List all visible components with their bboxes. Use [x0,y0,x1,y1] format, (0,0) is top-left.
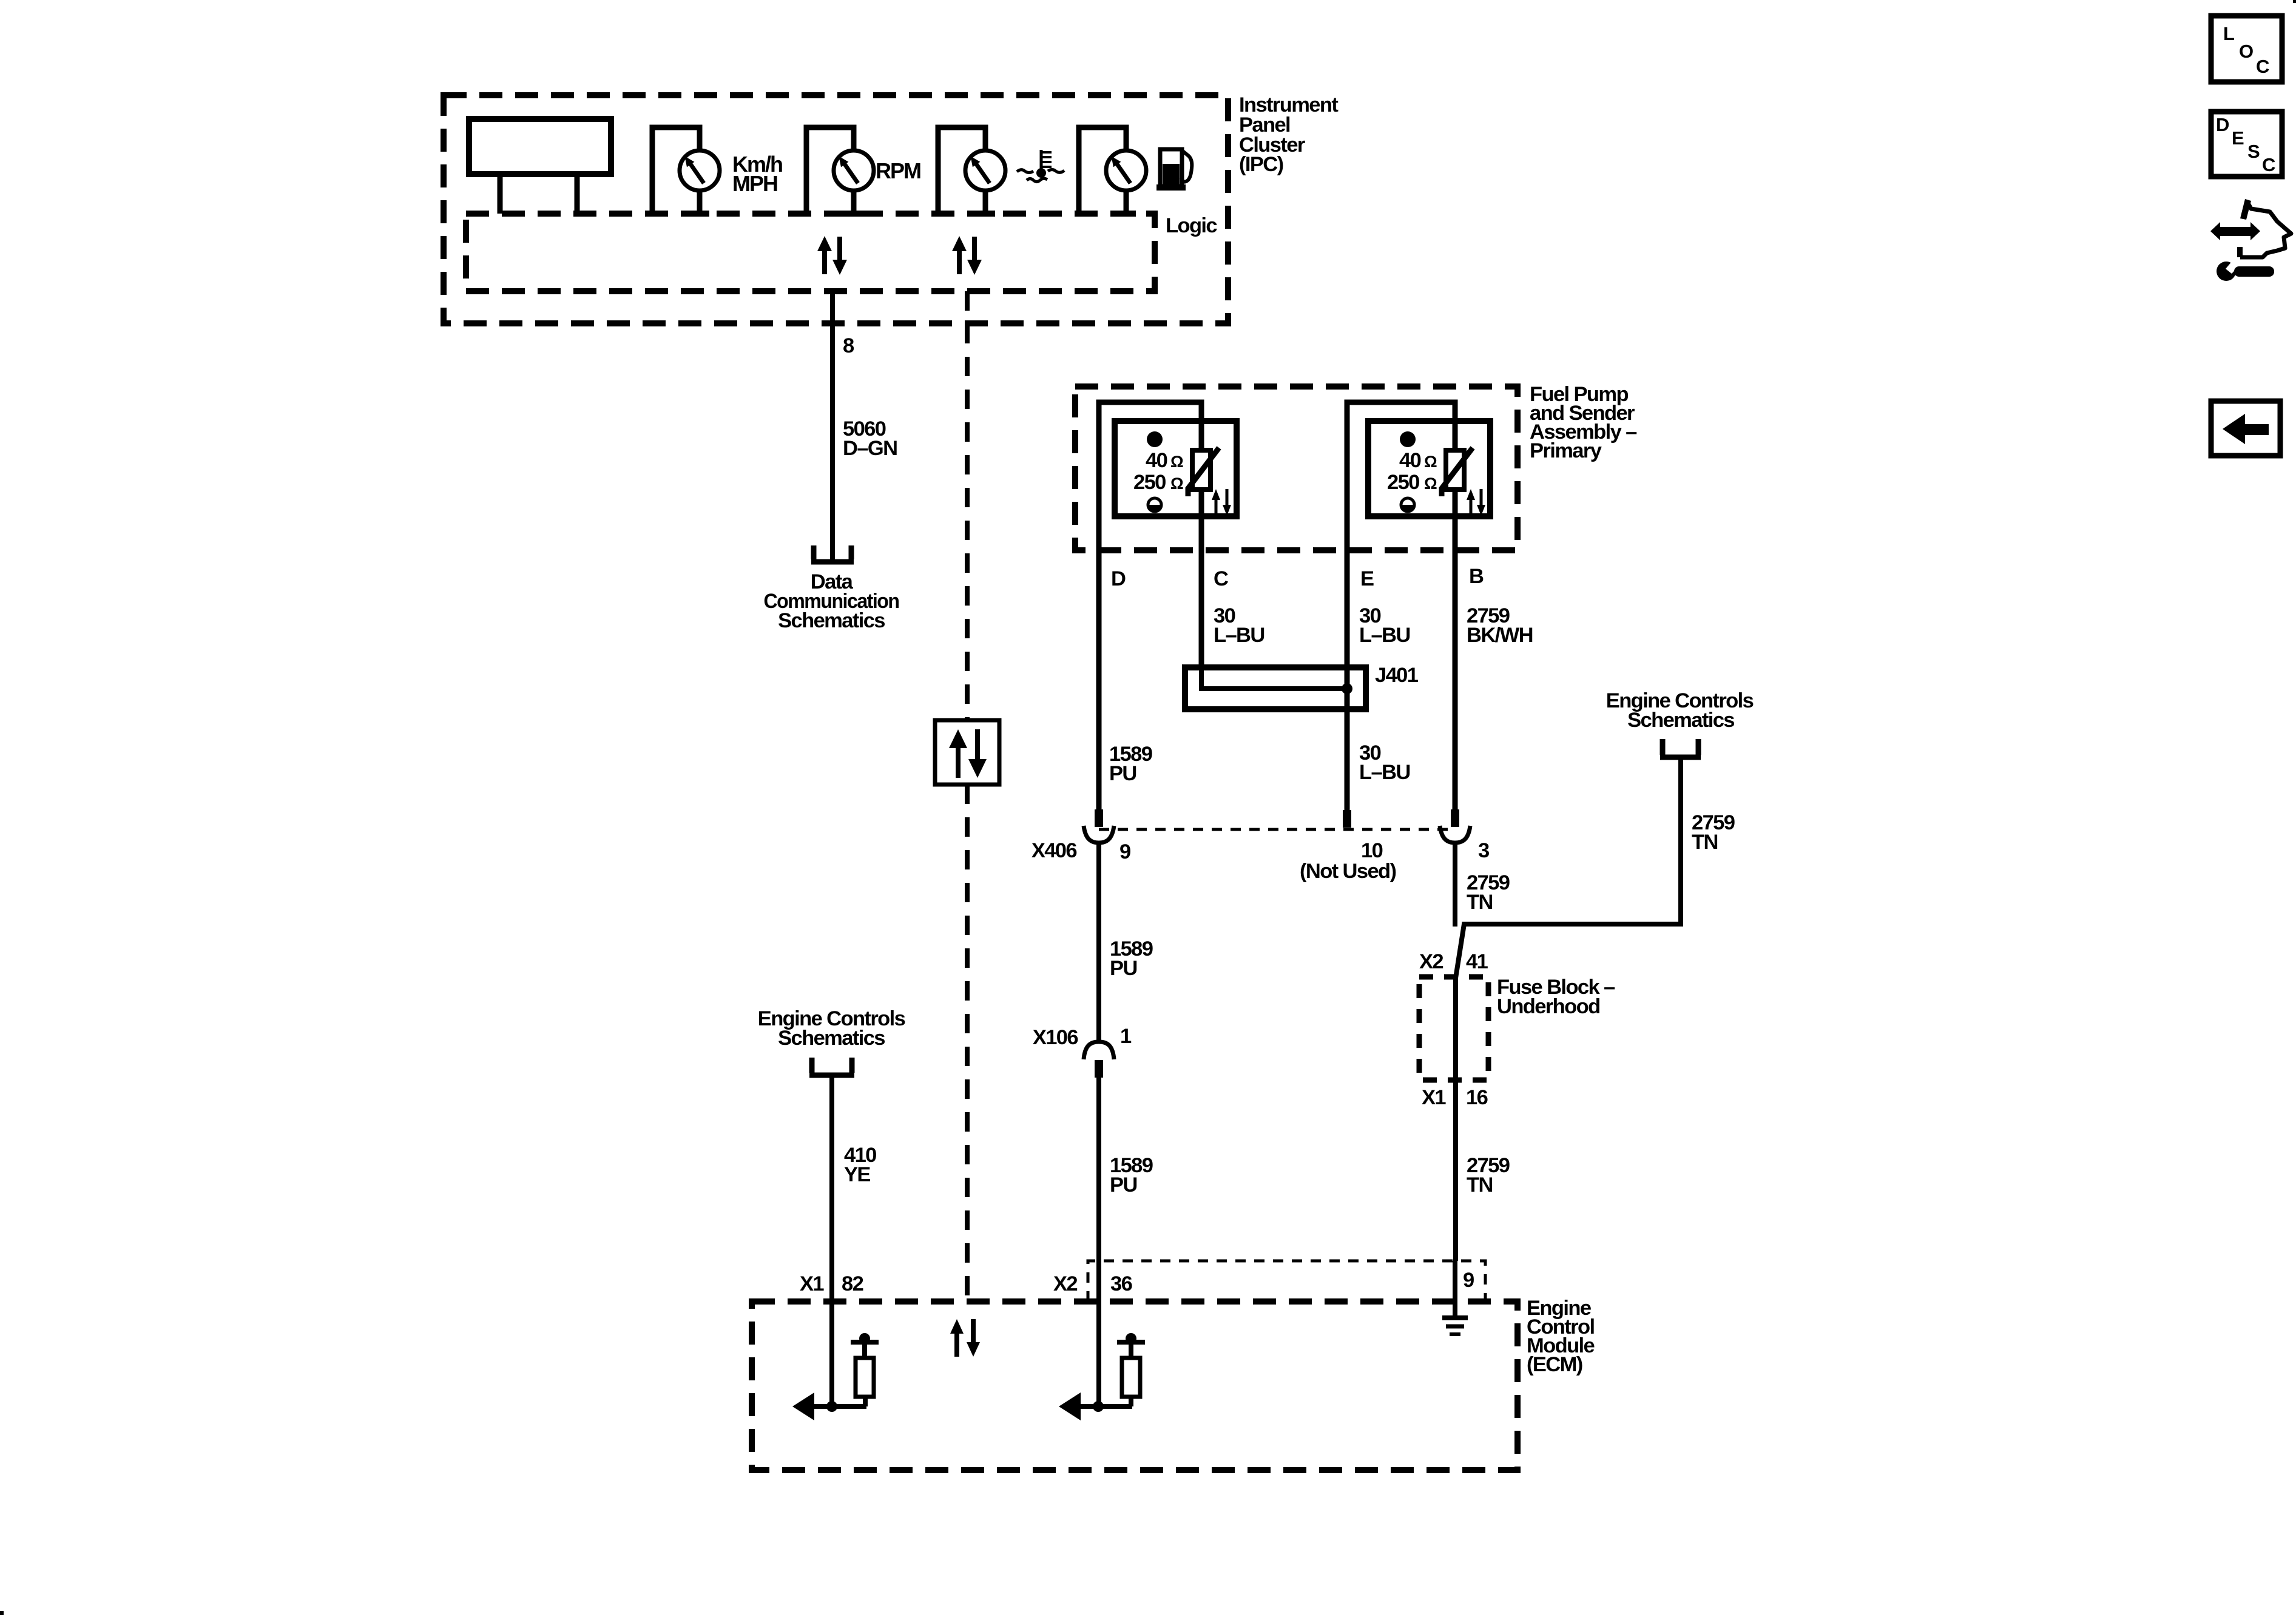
svg-text:Ω: Ω [1424,474,1437,493]
left sender full dot [1147,431,1163,447]
J401 bus [1201,667,1347,689]
right sender housing + wire E + wire B [1347,402,1455,828]
wire X2 41 to fuse block [1453,977,1458,1261]
svg-text:Underhood: Underhood [1497,995,1600,1018]
X406 pin 3 terminal [1440,809,1470,843]
wire 1589 PU below pin 9 [1096,843,1101,1043]
back arrow icon box [2211,401,2280,456]
svg-text:L–BU: L–BU [1359,761,1410,784]
serial data arrow box [935,720,999,785]
ECM driver X2 36 [1059,1333,1145,1420]
coolant temperature icon [1017,150,1064,182]
IPC dashed box [444,95,1228,323]
right sender full dot [1400,431,1416,447]
svg-text:40: 40 [1146,449,1167,472]
svg-text:E: E [2232,127,2244,149]
svg-text:C: C [2262,154,2275,175]
svg-text:250: 250 [1133,471,1166,494]
corner mark top right [2293,0,2296,3]
svg-text:C: C [1214,567,1228,590]
wire display leg right [575,174,580,214]
svg-text:PU: PU [1110,957,1137,980]
wire 2759 TN from schematics [1456,760,1681,978]
svg-text:RPM: RPM [876,158,920,183]
dashed serial data wire lower [965,785,970,1309]
svg-text:Schematics: Schematics [778,1027,885,1050]
svg-text:Logic: Logic [1166,214,1217,237]
Logic dashed box [466,214,1155,291]
svg-text:1: 1 [1120,1025,1132,1048]
svg-text:Ω: Ω [1170,474,1183,493]
X406 pin 9 terminal [1084,809,1114,843]
svg-text:L: L [2223,23,2235,44]
off-page connector left [809,1058,854,1075]
svg-text:L–BU: L–BU [1214,624,1264,647]
dashed serial data wire upper [965,291,970,720]
IPC label [1239,93,1339,176]
off-page connector Data Communication [811,545,854,562]
svg-text:X2: X2 [1419,950,1443,973]
gauge tachometer [806,127,874,217]
gauge coolant temp [938,127,1005,217]
ECM connector dotted line [1088,1261,1485,1301]
svg-text:(ECM): (ECM) [1527,1353,1582,1376]
svg-text:36: 36 [1110,1272,1132,1295]
svg-text:16: 16 [1466,1086,1488,1109]
corner mark bottom left [0,1611,4,1615]
svg-text:X106: X106 [1033,1026,1078,1049]
svg-text:C: C [2256,56,2269,77]
svg-text:PU: PU [1110,1173,1137,1197]
node Engine Controls Schematics left [758,1007,905,1050]
svg-text:TN: TN [1467,891,1493,914]
ECM dashed box [752,1301,1518,1470]
logic up/down arrows pair 1 [817,236,847,275]
svg-text:(IPC): (IPC) [1239,153,1283,176]
X406 pin 10 terminal [1343,810,1351,828]
svg-text:D–GN: D–GN [843,437,897,460]
left sender variable resistor [1188,448,1219,496]
svg-text:X1: X1 [1422,1086,1446,1109]
svg-text:41: 41 [1466,950,1488,973]
svg-text:S: S [2247,141,2260,162]
svg-text:E: E [1360,567,1374,590]
Fuse Block Underhood dashed box [1419,977,1488,1080]
svg-text:TN: TN [1467,1173,1493,1197]
node Data Communication Schematics [764,570,899,632]
svg-text:YE: YE [844,1163,870,1186]
wire 1589 PU to ECM [1096,1078,1101,1406]
label Fuel Pump and Sender Assembly Primary [1530,383,1637,462]
ECM ground pin 9 [1442,1261,1468,1334]
svg-text:PU: PU [1109,762,1136,785]
Fuel Pump and Sender Assembly dashed box [1075,387,1518,550]
svg-text:D: D [2216,114,2229,135]
right sender inner box [1368,421,1490,516]
svg-text:250: 250 [1387,471,1419,494]
svg-text:L–BU: L–BU [1359,624,1410,647]
svg-text:(Not Used): (Not Used) [1300,860,1396,883]
svg-text:X2: X2 [1053,1272,1077,1295]
svg-text:O: O [2239,41,2254,62]
arrows in box [949,729,987,778]
arrows at ECM [950,1319,980,1357]
fuel pump icon [1156,149,1192,191]
connector X106 [1084,1042,1114,1078]
svg-text:J401: J401 [1375,664,1419,687]
svg-text:BK/WH: BK/WH [1467,624,1533,647]
wire E through J401 to X406 [1345,709,1350,828]
LOC icon box [2211,16,2282,82]
svg-text:B: B [1469,565,1484,588]
svg-text:D: D [1111,567,1126,590]
ECM driver X1 82 [792,1333,879,1420]
svg-text:9: 9 [1463,1269,1474,1292]
svg-text:Ω: Ω [1170,453,1183,471]
IPC display module rectangle [469,119,611,174]
gauge fuel [1079,127,1146,217]
svg-text:Schematics: Schematics [1627,709,1734,732]
svg-text:82: 82 [842,1272,863,1295]
right sender empty dot [1400,498,1416,513]
svg-text:40: 40 [1399,449,1421,472]
svg-text:X406: X406 [1032,839,1077,862]
right sender variable resistor [1442,448,1473,496]
splice pack J401 [1185,667,1366,709]
left sender small arrows [1212,489,1231,516]
svg-text:10: 10 [1361,839,1383,862]
off-page connector right [1660,739,1701,757]
harness repair icon [2210,199,2291,281]
label Engine Control Module ECM [1527,1297,1595,1376]
DESC icon box [2211,112,2282,177]
wire display leg left [498,174,503,214]
svg-text:TN: TN [1692,831,1718,854]
svg-text:X1: X1 [800,1272,824,1295]
svg-text:9: 9 [1119,840,1130,863]
svg-text:3: 3 [1478,839,1489,862]
node Engine Controls Schematics right [1606,689,1754,732]
right sender small arrows [1467,489,1485,516]
svg-text:MPH: MPH [732,171,777,196]
connector X406 dotted line [1099,828,1455,831]
wire 2759 TN below pin 3 [1453,843,1457,927]
left sender inner box [1115,421,1237,516]
left sender housing + wire D + wire C [1099,402,1201,809]
gauge speedometer [652,127,720,217]
svg-text:8: 8 [843,334,854,357]
svg-text:Schematics: Schematics [778,609,885,632]
svg-text:Primary: Primary [1530,439,1602,462]
wire 410 YE [829,1078,834,1406]
logic up/down arrows pair 2 [952,236,982,275]
wire 5060 D-GN pin 8 [830,291,835,559]
svg-text:Ω: Ω [1424,453,1437,471]
left sender empty dot [1147,498,1163,513]
